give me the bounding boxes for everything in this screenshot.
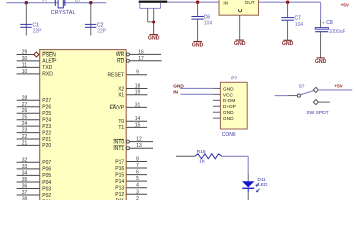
svg-text:PSEN: PSEN — [42, 52, 56, 58]
svg-text:T0: T0 — [118, 119, 124, 125]
svg-text:P05: P05 — [42, 173, 51, 179]
svg-text:10: 10 — [22, 69, 28, 75]
svg-text:CON6: CON6 — [222, 132, 236, 138]
svg-text:CRYSTAL: CRYSTAL — [51, 10, 76, 16]
CON6 pin 1 GND — [213, 86, 234, 92]
svg-text:17: 17 — [138, 56, 144, 62]
svg-text:P25: P25 — [42, 111, 51, 117]
svg-text:GND: GND — [234, 41, 246, 47]
IC pin 10 RXD — [17, 69, 54, 78]
svg-text:P02: P02 — [42, 193, 51, 199]
svg-text:X2: X2 — [118, 86, 124, 92]
IC pin 9 RESET — [108, 70, 147, 79]
svg-text:22: 22 — [22, 134, 28, 140]
IC pin 22 P21 — [17, 134, 52, 143]
IC pin 21 P20 — [17, 140, 52, 149]
svg-text:LED: LED — [258, 182, 268, 188]
ground (C7) — [282, 40, 294, 47]
svg-text:4: 4 — [136, 183, 139, 189]
pushbutton S1 (clipped at top) — [139, 1, 168, 23]
resistor R16 1K — [195, 149, 222, 165]
svg-text:P14: P14 — [115, 179, 124, 185]
svg-text:Y?: Y? — [42, 0, 48, 2]
svg-text:RXD: RXD — [42, 72, 53, 78]
IC pin 4 P13 — [115, 183, 147, 192]
IC pin 6 P15 — [115, 170, 147, 179]
wire LED to bottom — [247, 189, 249, 193]
wire net IN to CON6 pin2 — [181, 93, 213, 95]
svg-text:IN: IN — [173, 89, 178, 95]
wire regulator GND pin — [239, 15, 241, 40]
svg-text:34: 34 — [22, 170, 28, 176]
svg-text:22P: 22P — [97, 28, 107, 34]
svg-text:33: 33 — [22, 164, 28, 170]
IC pin 26 P25 — [17, 108, 52, 117]
svg-text:29: 29 — [22, 50, 28, 56]
IC pin 11 TXD — [17, 62, 53, 71]
svg-text:P17: P17 — [115, 159, 124, 165]
crystal Y1 CRYSTAL — [51, 0, 76, 16]
svg-text:OUT: OUT — [245, 0, 255, 6]
wire osc net top — [7, 2, 107, 4]
IC pin 36 P03 — [17, 184, 52, 193]
svg-text:25: 25 — [22, 115, 28, 121]
IC pin 23 P22 — [17, 128, 52, 137]
svg-text:15: 15 — [135, 122, 141, 128]
capacitor C7 104 — [281, 2, 303, 40]
IC pin 27 P26 — [17, 102, 52, 111]
wire to resistor R16 — [176, 155, 195, 157]
svg-text:3: 3 — [136, 189, 139, 195]
wire +5V rail top — [167, 1, 320, 3]
IC pin 3 P12 — [115, 189, 147, 198]
svg-text:P15: P15 — [115, 172, 124, 178]
svg-text:GND: GND — [282, 41, 294, 47]
svg-text:C?: C? — [75, 0, 81, 2]
IC pin 29 PSEN — [17, 50, 57, 59]
IC pin 5 P14 — [115, 176, 147, 185]
node C6 junction — [196, 1, 199, 4]
IC pin 24 P23 — [17, 121, 52, 130]
svg-text:VCC: VCC — [223, 92, 234, 98]
svg-text:P24: P24 — [42, 118, 51, 124]
svg-text:INT0: INT0 — [113, 139, 124, 145]
IC pin 19 X1 — [118, 90, 147, 99]
svg-text:S?: S? — [299, 83, 305, 89]
svg-text:19: 19 — [135, 90, 141, 96]
ground (button) — [148, 35, 160, 42]
svg-text:16: 16 — [138, 49, 144, 55]
IC pin 12 INT0 — [113, 137, 153, 146]
svg-text:21: 21 — [22, 140, 28, 146]
svg-text:31: 31 — [135, 102, 141, 108]
svg-text:INT1: INT1 — [113, 146, 124, 152]
svg-text:P20: P20 — [42, 143, 51, 149]
svg-text:RESET: RESET — [108, 73, 125, 79]
node XTAL2 junction — [89, 1, 92, 4]
IC pin 2 P11 — [116, 196, 147, 205]
svg-text:P07: P07 — [42, 160, 51, 166]
svg-text:GND: GND — [223, 110, 234, 116]
capacitor C1 — [20, 3, 42, 36]
svg-text:38: 38 — [22, 197, 28, 200]
svg-text:32: 32 — [22, 157, 28, 163]
ground (C6) — [192, 42, 204, 49]
svg-text:P21: P21 — [42, 137, 51, 143]
IC pin 7 P16 — [115, 163, 147, 172]
svg-text:14: 14 — [135, 116, 141, 122]
svg-text:6: 6 — [136, 170, 139, 176]
op-amp U1 AT89C51 body — [40, 50, 127, 203]
node C7 junction — [286, 1, 289, 4]
svg-text:P22: P22 — [42, 130, 51, 136]
IC pin 16 WR — [116, 49, 161, 58]
IC pin 25 P24 — [17, 115, 52, 124]
capacitor C2 — [85, 3, 107, 36]
CON6 pin 2 VCC — [213, 92, 234, 98]
svg-text:D+DP: D+DP — [223, 104, 236, 110]
IC pin 13 INT1 — [113, 143, 153, 152]
svg-text:8: 8 — [136, 157, 139, 163]
svg-text:R16: R16 — [197, 149, 206, 155]
IC pin 35 P04 — [17, 177, 52, 186]
svg-text:26: 26 — [22, 108, 28, 114]
node button-gnd junction — [152, 21, 155, 24]
svg-text:12: 12 — [136, 137, 142, 143]
svg-text:P26: P26 — [42, 105, 51, 111]
svg-text:IN: IN — [223, 0, 228, 6]
svg-text:+5V: +5V — [334, 83, 343, 88]
ground (regulator) — [234, 40, 246, 47]
svg-text:GND: GND — [223, 86, 234, 92]
IC pin 37 P02 — [17, 190, 52, 199]
svg-text:7: 7 — [136, 163, 139, 169]
svg-text:36: 36 — [22, 184, 28, 190]
svg-text:11: 11 — [22, 62, 27, 68]
svg-text:+5V: +5V — [341, 2, 350, 7]
svg-text:RD: RD — [117, 59, 125, 65]
svg-text:104: 104 — [295, 22, 304, 28]
svg-text:P01: P01 — [42, 199, 51, 200]
LED D11 — [242, 177, 268, 192]
IC pin 15 T1 — [118, 122, 147, 131]
svg-text:WR: WR — [116, 52, 125, 58]
IC pin 38 P01 — [17, 197, 52, 206]
wire net GND to CON6 pin1 — [180, 87, 213, 89]
svg-text:37: 37 — [22, 190, 28, 196]
svg-text:P04: P04 — [42, 180, 51, 186]
svg-text:C7: C7 — [294, 16, 301, 22]
svg-text:5: 5 — [136, 176, 139, 182]
svg-text:P06: P06 — [42, 167, 51, 173]
svg-text:P12: P12 — [115, 192, 124, 198]
capacitor C8 1000uF electrolytic — [315, 2, 345, 57]
capacitor C6 104 — [191, 2, 212, 41]
IC pin 30 ALE/P — [17, 56, 58, 65]
wire button to ground — [153, 22, 155, 34]
CON6 pin 4 D+DP — [213, 104, 236, 110]
svg-text:35: 35 — [22, 177, 28, 183]
svg-text:P23: P23 — [42, 124, 51, 130]
svg-text:C6: C6 — [204, 15, 211, 21]
svg-text:2: 2 — [136, 196, 139, 200]
svg-text:GND: GND — [173, 84, 184, 90]
svg-text:1000uF: 1000uF — [329, 29, 346, 35]
CON6 pin 3 D-DM — [213, 98, 236, 104]
IC pin 28 P27 — [17, 95, 52, 104]
IC pin 32 P07 — [17, 157, 52, 166]
svg-text:P27: P27 — [42, 98, 51, 104]
svg-text:28: 28 — [22, 95, 28, 101]
IC pin 34 P05 — [17, 170, 52, 179]
ground (C8) — [315, 58, 327, 65]
svg-text:1K: 1K — [199, 159, 206, 165]
svg-text:GND: GND — [315, 59, 327, 65]
svg-text:TXD: TXD — [42, 65, 52, 71]
CON6 pin 6 GND — [213, 116, 234, 122]
svg-text:+: + — [322, 21, 325, 26]
switch S1 SW SPDT — [275, 83, 353, 115]
IC pin 8 P17 — [115, 157, 147, 166]
wire R16 to LED — [222, 155, 248, 157]
CON6 pin 5 GND — [213, 110, 234, 116]
svg-text:X1: X1 — [118, 93, 124, 99]
IC pin 33 P06 — [17, 164, 52, 173]
svg-text:P13: P13 — [115, 186, 124, 192]
svg-text:EA/VP: EA/VP — [109, 105, 124, 111]
svg-text:GND: GND — [192, 42, 204, 48]
node XTAL1 junction — [25, 1, 28, 4]
svg-text:13: 13 — [136, 143, 142, 149]
svg-text:SW SPDT: SW SPDT — [306, 110, 328, 116]
IC pin 31 EA/VP — [109, 102, 147, 111]
svg-text:D-DM: D-DM — [223, 98, 236, 104]
svg-text:27: 27 — [22, 102, 28, 108]
svg-text:P16: P16 — [115, 166, 124, 172]
connector P1 CON6 — [220, 75, 247, 137]
svg-text:GND: GND — [148, 36, 160, 42]
svg-text:104: 104 — [204, 21, 213, 27]
svg-text:ALE/P: ALE/P — [42, 59, 57, 65]
svg-text:30: 30 — [22, 56, 28, 62]
svg-text:23: 23 — [22, 128, 28, 134]
svg-text:C8: C8 — [326, 20, 333, 26]
regulator U2 7805 (clipped at top) — [219, 0, 259, 15]
svg-text:24: 24 — [22, 121, 28, 127]
svg-text:9: 9 — [136, 70, 139, 76]
svg-text:GND: GND — [223, 116, 234, 122]
svg-text:18: 18 — [135, 84, 141, 90]
svg-text:T1: T1 — [118, 125, 124, 131]
IC pin 18 X2 — [118, 84, 147, 93]
svg-text:22P: 22P — [33, 28, 43, 34]
svg-text:P03: P03 — [42, 186, 51, 192]
svg-text:P?: P? — [231, 75, 237, 81]
IC pin 14 T0 — [118, 116, 147, 125]
IC pin 17 RD — [117, 56, 162, 65]
svg-text:P11: P11 — [116, 199, 125, 200]
